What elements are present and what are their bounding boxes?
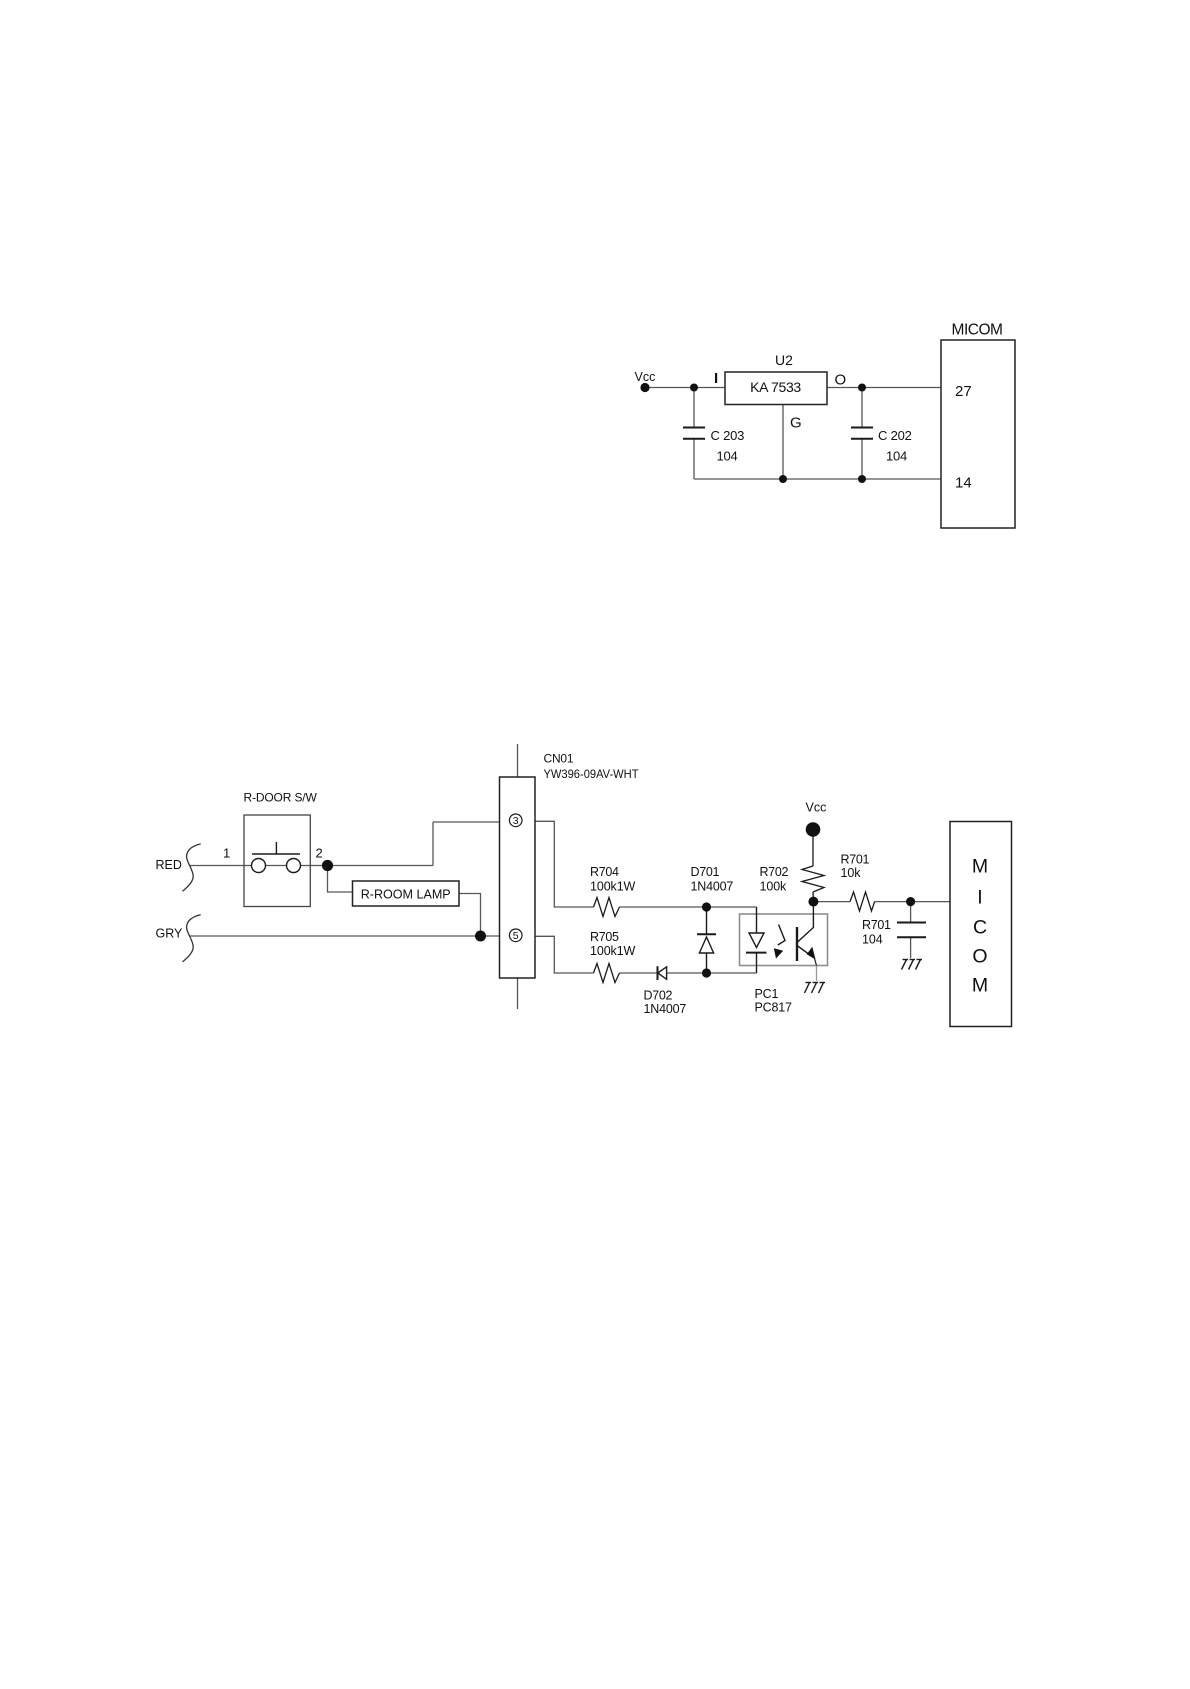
svg-text:C 203: C 203 — [711, 428, 745, 443]
svg-text:RED: RED — [156, 858, 182, 872]
svg-text:100k: 100k — [760, 880, 788, 894]
svg-text:Vcc: Vcc — [635, 370, 656, 384]
svg-text:D701: D701 — [691, 865, 720, 879]
svg-text:I: I — [977, 887, 982, 909]
svg-text:Vcc: Vcc — [806, 801, 827, 815]
svg-text:PC1: PC1 — [755, 987, 779, 1001]
svg-text:2: 2 — [316, 846, 323, 861]
svg-text:1N4007: 1N4007 — [691, 880, 734, 894]
svg-text:I: I — [714, 370, 718, 387]
svg-text:5: 5 — [513, 930, 519, 942]
svg-text:YW396-09AV-WHT: YW396-09AV-WHT — [544, 767, 640, 781]
svg-text:R-DOOR S/W: R-DOOR S/W — [244, 791, 318, 805]
svg-text:104: 104 — [862, 933, 883, 947]
svg-text:R702: R702 — [760, 865, 789, 879]
svg-text:U2: U2 — [775, 352, 793, 368]
svg-text:G: G — [790, 415, 802, 432]
svg-text:1: 1 — [223, 846, 230, 861]
svg-text:C 202: C 202 — [878, 428, 912, 443]
svg-text:27: 27 — [955, 383, 972, 400]
svg-text:O: O — [835, 372, 847, 389]
svg-text:C: C — [973, 917, 987, 939]
svg-text:3: 3 — [513, 815, 519, 827]
svg-text:R704: R704 — [590, 865, 619, 879]
svg-text:D702: D702 — [644, 989, 673, 1003]
svg-text:M: M — [972, 856, 988, 878]
svg-text:1N4007: 1N4007 — [644, 1002, 687, 1016]
svg-text:O: O — [972, 946, 987, 968]
svg-text:10k: 10k — [841, 866, 862, 880]
svg-text:104: 104 — [886, 449, 907, 464]
svg-text:104: 104 — [717, 449, 738, 464]
svg-text:100k1W: 100k1W — [590, 944, 636, 958]
svg-text:R-ROOM LAMP: R-ROOM LAMP — [361, 887, 451, 902]
svg-text:M: M — [972, 975, 988, 997]
svg-text:GRY: GRY — [156, 926, 184, 940]
svg-text:R701: R701 — [841, 853, 870, 867]
svg-text:PC817: PC817 — [755, 1001, 792, 1015]
svg-text:CN01: CN01 — [544, 752, 574, 766]
svg-text:R705: R705 — [590, 930, 619, 944]
svg-text:KA 7533: KA 7533 — [750, 379, 801, 395]
svg-text:14: 14 — [955, 475, 972, 492]
svg-text:R701: R701 — [862, 918, 891, 932]
svg-text:100k1W: 100k1W — [590, 880, 636, 894]
svg-text:MICOM: MICOM — [952, 322, 1003, 339]
